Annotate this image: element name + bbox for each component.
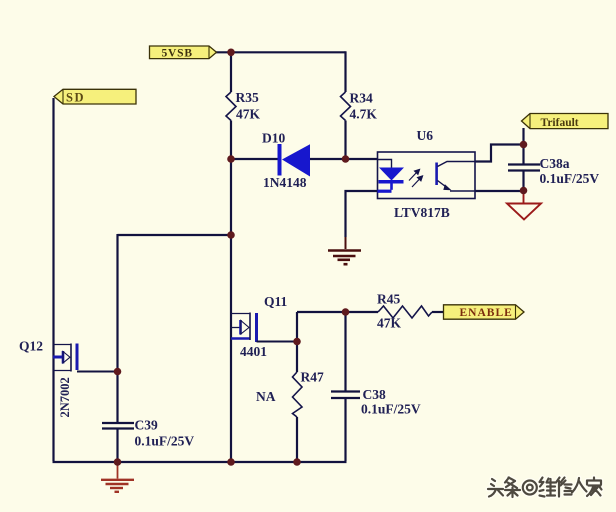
svg-text:0.1uF/25V: 0.1uF/25V [361, 402, 421, 417]
svg-text:C38a: C38a [540, 156, 570, 171]
transistor Q12 [19, 339, 118, 418]
U6 phototransistor [435, 162, 475, 192]
resistor R47 [293, 372, 303, 417]
wire U6 emitter lead [475, 190, 524, 192]
capacitor C38 [331, 387, 421, 417]
wire ENABLE horizontal [297, 311, 378, 313]
svg-text:ENABLE: ENABLE [460, 307, 513, 319]
svg-text:4.7K: 4.7K [350, 107, 378, 122]
node dots [114, 49, 528, 466]
watermark 头条@维修人家 [488, 478, 602, 498]
wire C39 bottom lead [116, 429, 118, 463]
wire U6 collector step [475, 145, 524, 162]
node emitter/C38a [520, 187, 528, 195]
transistor Q11 [231, 294, 297, 359]
wire ground bus bottom [53, 461, 347, 463]
svg-text:47K: 47K [236, 107, 261, 122]
node R35/D10 [227, 155, 235, 163]
svg-text:SD: SD [66, 91, 85, 105]
capacitor C39 [102, 418, 194, 449]
ground earth bottom left [101, 462, 134, 492]
wire SD vertical rail [52, 98, 54, 461]
net label Trifault flag [522, 114, 609, 129]
node bus R47 [293, 458, 301, 466]
wire C38a bottom lead [522, 171, 524, 191]
net label ENABLE flag [444, 305, 525, 319]
svg-text:0.1uF/25V: 0.1uF/25V [540, 171, 600, 186]
capacitor C38a [508, 156, 599, 186]
ground triangle below C38a [507, 192, 541, 220]
node 5VSB/R35 [227, 49, 235, 57]
svg-text:Q12: Q12 [19, 339, 43, 354]
power flag 5VSB [150, 46, 217, 60]
svg-text:0.1uF/25V: 0.1uF/25V [135, 434, 195, 449]
svg-text:4401: 4401 [240, 344, 267, 359]
net label SD flag [54, 89, 136, 104]
node bus C39 [114, 458, 122, 466]
node R45/C38 [342, 308, 350, 316]
U6 LED [378, 160, 405, 193]
svg-text:1N4148: 1N4148 [263, 175, 307, 190]
U6 light arrows [409, 170, 423, 188]
diode D10 [262, 131, 310, 191]
wire R35 bottom vertical rail [230, 121, 232, 463]
svg-text:R35: R35 [236, 90, 259, 105]
svg-text:R34: R34 [350, 91, 373, 106]
wire R47 bottom lead [296, 417, 298, 462]
wire R34 top lead [344, 51, 346, 92]
svg-text:C39: C39 [135, 418, 158, 433]
node x231 y235 [227, 231, 235, 239]
wire C38 bottom lead [344, 398, 346, 461]
wire C38 top lead [344, 312, 346, 392]
svg-text:R47: R47 [301, 370, 324, 385]
ground earth below U6 LED [328, 237, 361, 264]
wire C38a top lead [522, 145, 524, 165]
node R34/D10 [342, 155, 350, 163]
svg-text:R45: R45 [377, 292, 400, 307]
svg-text:U6: U6 [417, 128, 434, 143]
node Trifault/collector [520, 141, 528, 149]
resistor R45 [378, 306, 432, 318]
svg-text:D10: D10 [262, 131, 285, 146]
node Q11 gate [293, 338, 301, 346]
svg-text:47K: 47K [377, 316, 402, 331]
node bus x231 [227, 458, 235, 466]
wire R35 top lead [230, 52, 232, 92]
wire R45 to ENABLE flag [432, 311, 444, 313]
node Q12 gate [114, 368, 122, 376]
wire U6 cathode to ground [346, 191, 378, 237]
wire D10 right lead to U6 [310, 158, 378, 160]
wire horizontal y235 [118, 234, 232, 236]
svg-text:Q11: Q11 [264, 294, 288, 309]
wire R34 bottom lead [344, 121, 346, 161]
svg-text:2N7002: 2N7002 [58, 377, 72, 417]
wire Q11 gate node vertical [296, 312, 298, 372]
resistor R35 [226, 92, 236, 121]
svg-text:Trifault: Trifault [541, 117, 579, 129]
svg-text:C38: C38 [363, 387, 386, 402]
wire x117 vertical [116, 234, 118, 423]
wire Trifault drop [522, 128, 524, 145]
svg-text:NA: NA [256, 389, 276, 404]
resistor R34 [341, 92, 351, 121]
svg-text:LTV817B: LTV817B [394, 205, 450, 220]
svg-text:5VSB: 5VSB [162, 48, 193, 60]
wire top bus 5VSB [216, 51, 346, 53]
optocoupler U6 box [378, 152, 476, 199]
wire D10 left lead [231, 158, 278, 160]
